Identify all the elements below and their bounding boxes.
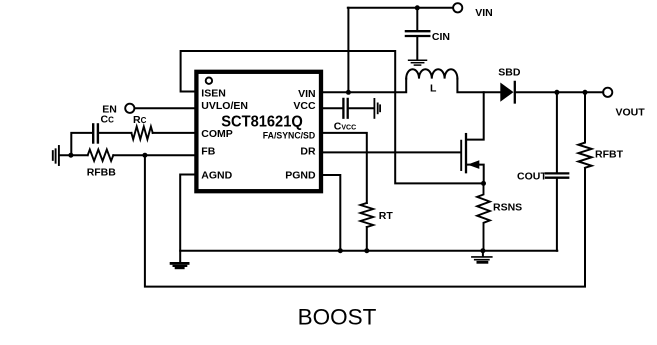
source stub with arrow <box>467 165 484 184</box>
wire ISEN loop to sense node <box>181 51 484 183</box>
svg-text:PGND: PGND <box>285 170 316 182</box>
ground (left, sideways) <box>53 146 59 165</box>
terminal EN <box>125 104 134 113</box>
svg-text:FB: FB <box>201 145 215 157</box>
resistor RT <box>360 203 373 227</box>
svg-text:DR: DR <box>300 146 316 158</box>
node RSNS on rail <box>480 248 485 253</box>
resistor RFBB <box>88 150 114 161</box>
svg-text:VIN: VIN <box>298 88 316 100</box>
wire RT to rail <box>366 227 368 251</box>
wire ground to RFBB <box>60 154 88 156</box>
node PGND on rail <box>338 248 343 253</box>
resistor RSNS <box>477 183 490 250</box>
node VIN-CIN junction <box>415 5 420 10</box>
node source/ISEN junction <box>481 181 486 186</box>
wire ground rail <box>180 250 557 252</box>
transistor Q1 (N-MOSFET) <box>461 92 484 183</box>
capacitor Cc <box>97 124 99 142</box>
node COUT tap <box>554 90 559 95</box>
ground (RSNS) <box>472 251 492 263</box>
terminal VIN <box>453 3 462 12</box>
node FB junction <box>142 153 147 158</box>
inductor L <box>406 69 457 78</box>
ground (CIN) <box>409 60 427 65</box>
wire Cc to ground branch <box>71 133 92 155</box>
wire AGND <box>180 175 196 263</box>
svg-text:FA/SYNC/SD: FA/SYNC/SD <box>263 130 316 140</box>
svg-text:SBD: SBD <box>498 67 521 79</box>
wire VIN top rail <box>348 7 453 9</box>
gate bar <box>460 141 462 170</box>
svg-text:COUT: COUT <box>517 170 547 182</box>
resistor RFBT <box>578 92 591 168</box>
svg-text:UVLO/EN: UVLO/EN <box>201 100 248 112</box>
node RFBT tap <box>583 90 588 95</box>
resistor Rc <box>131 126 152 139</box>
capacitor COUT <box>517 92 568 250</box>
svg-text:L: L <box>430 83 437 95</box>
wire diode to VOUT <box>516 91 603 93</box>
svg-text:SCT81621Q: SCT81621Q <box>221 114 303 131</box>
svg-text:RC: RC <box>133 114 147 126</box>
svg-text:VOUT: VOUT <box>616 107 646 119</box>
svg-text:CIN: CIN <box>432 31 450 43</box>
wire FB feedback to RFBT bottom <box>145 155 585 286</box>
svg-text:AGND: AGND <box>201 170 232 182</box>
wire VCC <box>321 107 342 109</box>
node VIN rail junction <box>346 90 351 95</box>
capacitor Cvcc <box>342 99 344 118</box>
pin 1 marker <box>206 78 212 84</box>
wire PGND <box>321 175 340 251</box>
svg-text:CC: CC <box>101 114 115 126</box>
wire FA/SYNC/SD to RT <box>321 133 367 203</box>
op IC U1 SCT81621Q <box>196 72 321 191</box>
svg-text:RFBT: RFBT <box>595 149 624 161</box>
node RT on rail <box>364 248 369 253</box>
wire RFBB to FB <box>113 154 196 156</box>
wire VIN drop to VIN pin rail <box>347 8 349 93</box>
node Cc/RFBB junction <box>68 153 73 158</box>
capacitor CIN <box>406 8 450 60</box>
svg-text:VIN: VIN <box>475 7 493 19</box>
ground (Cvcc, sideways) <box>374 99 380 118</box>
svg-text:ISEN: ISEN <box>201 88 226 100</box>
svg-text:VCC: VCC <box>293 100 316 112</box>
svg-text:RFBB: RFBB <box>87 167 117 179</box>
wire Cvcc to ground <box>349 107 374 109</box>
wire Rc to Cc <box>99 132 131 134</box>
diode SBD <box>500 83 513 102</box>
ground (AGND, solid steps) <box>170 262 190 269</box>
wire EN to UVLO/EN <box>135 107 197 109</box>
wire inductor to diode <box>457 79 500 93</box>
svg-text:BOOST: BOOST <box>298 305 377 330</box>
wire DR to gate <box>321 151 460 153</box>
terminal VOUT <box>603 88 612 97</box>
wire VIN pin rail <box>321 79 406 93</box>
svg-text:RSNS: RSNS <box>493 202 522 214</box>
svg-text:RT: RT <box>379 210 394 222</box>
wire COMP <box>153 132 197 134</box>
channel bar <box>465 134 467 172</box>
drain stub <box>467 92 484 139</box>
